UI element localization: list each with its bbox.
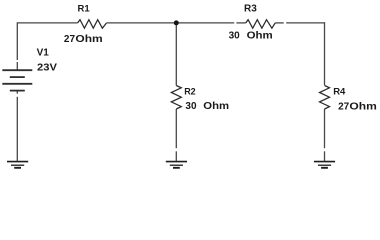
wire R1-to-junction — [107, 22, 235, 24]
wire right vertical upper — [324, 22, 326, 85]
wire right vertical lower — [324, 109, 326, 148]
wire right ground pin — [324, 151, 326, 161]
svg-text:27: 27 — [64, 34, 76, 45]
wire left vertical lower — [16, 97, 18, 161]
svg-text:Ohm: Ohm — [203, 101, 229, 112]
resistor R3 — [246, 20, 275, 29]
wire top left-to-R1 — [17, 22, 77, 24]
svg-text:27: 27 — [338, 101, 350, 112]
svg-text:23V: 23V — [37, 63, 57, 74]
ground left — [7, 162, 28, 168]
wire middle vertical upper — [175, 23, 177, 86]
svg-text:R3: R3 — [244, 4, 257, 15]
resistor R2 — [171, 86, 181, 110]
svg-text:30: 30 — [185, 101, 197, 112]
wire R3-to-right corner — [286, 22, 325, 24]
svg-text:V1: V1 — [37, 48, 50, 59]
ground middle — [166, 162, 187, 168]
wire middle vertical lower — [175, 109, 177, 148]
svg-text:R2: R2 — [184, 86, 196, 96]
wire left vertical upper — [16, 22, 18, 60]
svg-text:R1: R1 — [78, 4, 91, 15]
resistor R4 — [320, 86, 330, 110]
svg-text:R4: R4 — [333, 86, 346, 97]
svg-text:30: 30 — [229, 31, 241, 42]
svg-text:Ohm: Ohm — [75, 34, 102, 45]
resistor R1 — [78, 20, 107, 29]
wire battery top pin — [16, 62, 18, 70]
svg-text:Ohm: Ohm — [349, 101, 377, 112]
wire middle ground pin — [175, 151, 177, 161]
wire R3 left pin — [236, 22, 245, 24]
node junction dot — [174, 20, 179, 25]
wire R3 right pin — [275, 22, 284, 24]
svg-text:Ohm: Ohm — [247, 31, 273, 42]
battery V1 — [2, 70, 32, 90]
wire battery bottom pin — [16, 91, 18, 94]
ground right — [314, 162, 335, 168]
